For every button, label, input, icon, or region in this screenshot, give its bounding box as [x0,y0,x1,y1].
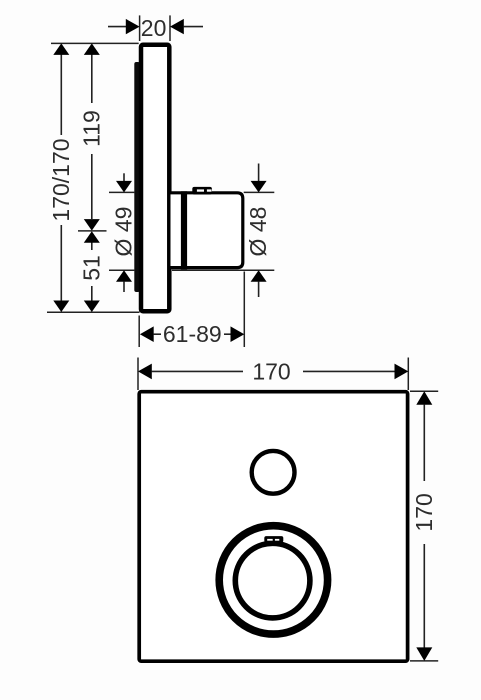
thermostat knob inner circle [235,543,310,618]
wall seal strip [134,62,140,292]
knob top marker tab (side view) [192,187,212,195]
svg-text:170: 170 [252,358,290,384]
side view escutcheon plate [141,45,169,312]
svg-text:20: 20 [141,15,167,41]
svg-text:119: 119 [79,110,105,147]
dimension diameter 48 (knob) [172,164,274,298]
dimension 170 vertical (faceplate height) [410,391,438,661]
front view faceplate square [139,392,407,662]
top extension line [51,42,139,44]
dimension 61-89 (installation depth) [139,272,244,348]
dimension 20 (plate depth) [108,15,203,41]
svg-text:170/170: 170/170 [48,138,74,221]
dimension 51 (knob centre to plate bottom) [79,231,105,312]
dimension diameter 49 (sleeve) [109,173,137,292]
svg-text:Ø 48: Ø 48 [245,207,271,257]
knob marker tab (front view) [264,536,283,542]
svg-text:Ø 49: Ø 49 [111,207,137,257]
svg-text:61-89: 61-89 [163,321,222,347]
thermostat knob outer circle [219,526,327,634]
dimension 170 horizontal (faceplate width) [138,358,408,391]
svg-text:170: 170 [411,493,437,531]
knob centreline tick [78,230,107,232]
dimension 119 (plate top to knob centre) [79,43,105,230]
bottom extension line [47,311,140,313]
select button circle [252,451,295,494]
svg-text:51: 51 [79,255,105,281]
knob base thick edge [181,191,187,269]
dimension 170/170 (plate height) [48,43,74,312]
knob body outline (side view) [171,193,243,268]
